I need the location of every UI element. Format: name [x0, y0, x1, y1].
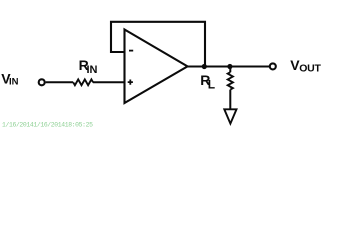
svg-text:L: L — [208, 78, 215, 92]
node junction dot feedback — [202, 64, 207, 69]
wire op-amp output to VOUT terminal — [187, 66, 270, 68]
svg-text:OUT: OUT — [299, 63, 321, 75]
node junction dot RL — [227, 64, 232, 69]
resistor RIN — [73, 79, 93, 85]
wire RL top lead — [229, 67, 231, 73]
ground symbol — [224, 109, 236, 123]
node VIN terminal — [39, 79, 45, 85]
op-amp + input sign — [128, 80, 133, 85]
svg-text:IN: IN — [87, 64, 98, 76]
wire RL bottom lead — [229, 90, 231, 109]
op-amp U1 triangle — [125, 30, 188, 104]
op-amp - input sign — [129, 50, 133, 52]
wire feedback loop: stub to - input, up, across, down to output node — [111, 22, 205, 67]
wire VIN terminal to RIN — [46, 81, 74, 83]
resistor RL — [228, 72, 233, 89]
svg-text:IN: IN — [9, 77, 19, 88]
wire RIN to op-amp + input — [93, 81, 125, 83]
svg-text:1/16/20141/16/201418:05:25: 1/16/20141/16/201418:05:25 — [2, 121, 93, 128]
node VOUT terminal — [270, 63, 276, 69]
